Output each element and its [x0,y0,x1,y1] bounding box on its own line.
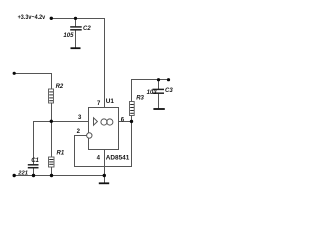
svg-text:+3.3v~4.2v: +3.3v~4.2v [18,14,46,21]
svg-text:C3: C3 [165,88,173,94]
svg-text:R1: R1 [57,151,65,157]
svg-text:R2: R2 [56,84,64,90]
svg-text:U1: U1 [106,98,115,105]
svg-text:C1: C1 [31,158,39,164]
svg-text:R3: R3 [136,96,144,102]
svg-text:221: 221 [17,170,28,176]
svg-text:105: 105 [63,33,74,39]
svg-text:103: 103 [147,90,158,96]
svg-text:AD8541: AD8541 [106,154,130,161]
svg-text:C2: C2 [83,26,91,32]
